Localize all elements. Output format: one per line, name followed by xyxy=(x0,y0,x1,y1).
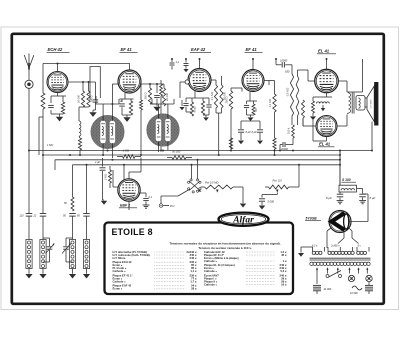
wire V4 cath xyxy=(249,92,251,102)
coil L3 xyxy=(26,240,32,269)
svg-text:2 µF: 2 µF xyxy=(94,161,101,164)
logo Alfar xyxy=(219,213,269,226)
svg-text:10000: 10000 xyxy=(280,59,288,63)
capacitor C14 bypass xyxy=(259,121,261,129)
svg-text:0,1 MΩ: 0,1 MΩ xyxy=(268,99,272,107)
title box xyxy=(105,223,294,295)
capacitor C8 avc xyxy=(185,59,187,63)
capacitor Ct3 xyxy=(69,213,76,215)
transformer T1 primary xyxy=(349,93,351,113)
wire tower2 drop xyxy=(42,155,44,213)
wire R1 down xyxy=(42,109,44,155)
transformer PT winding HT xyxy=(328,251,331,254)
svg-text:16 v.: 16 v. xyxy=(281,282,287,286)
tube V8 5Y3GB xyxy=(329,211,351,233)
svg-text:1,7 v.: 1,7 v. xyxy=(190,279,197,283)
wire R21 top xyxy=(297,70,299,76)
bus turns right xyxy=(339,151,341,186)
wire Ct1 down xyxy=(28,216,30,239)
wire det gnd xyxy=(203,114,209,116)
wire 6v net xyxy=(301,246,313,248)
lamp LP2 xyxy=(366,275,372,281)
svg-text:28 v.: 28 v. xyxy=(191,287,197,291)
arrow nfb xyxy=(321,108,325,111)
antenna coupling xyxy=(25,80,33,88)
resistor R17 xyxy=(229,138,232,149)
svg-text:5 000: 5 000 xyxy=(195,106,197,112)
wire V4 right xyxy=(264,80,275,82)
wire det join xyxy=(186,111,192,113)
svg-text:8 µF: 8 µF xyxy=(370,196,376,200)
capacitor C20 xyxy=(120,101,122,103)
wire V3 left xyxy=(180,81,185,83)
resistor R23 wavy xyxy=(292,125,295,138)
switch SW1 xyxy=(188,181,190,183)
wire sec to vc xyxy=(365,97,367,99)
capacitor C5 xyxy=(119,103,125,105)
wire V1 left drop xyxy=(42,64,44,94)
wire cath join xyxy=(50,110,52,114)
ground V4 cathode xyxy=(248,117,254,121)
svg-text:0,1 MΩ: 0,1 MΩ xyxy=(210,92,214,100)
capacitor C16 xyxy=(280,144,282,146)
wire MF2 top net xyxy=(152,103,174,105)
variable capacitor CV1 xyxy=(49,241,51,246)
svg-text:1,1 v.: 1,1 v. xyxy=(190,269,197,273)
wire V2 right xyxy=(141,83,164,85)
wire C3 gnd xyxy=(93,109,96,111)
speaker voice coil xyxy=(359,96,367,111)
wire speaker return xyxy=(371,122,373,151)
capacitor Ct2 xyxy=(40,213,47,215)
wire V5 grid xyxy=(308,80,315,82)
bus D xyxy=(73,164,341,166)
ground L6 xyxy=(83,274,90,279)
tube V6 EL41 xyxy=(316,116,337,137)
wire R29 gnd xyxy=(242,187,244,203)
wire CV1 link xyxy=(49,238,51,241)
wire V1 right xyxy=(68,81,96,83)
svg-text:CH 6800: CH 6800 xyxy=(371,99,373,108)
svg-text:Cathode »: Cathode » xyxy=(204,269,217,273)
wire choke in xyxy=(339,151,341,186)
ground L5 xyxy=(69,274,76,279)
svg-text:41 000: 41 000 xyxy=(324,288,332,291)
svg-text:45 v.: 45 v. xyxy=(281,253,287,257)
capacitor C13 bypass xyxy=(240,121,242,129)
wire caps top xyxy=(241,120,260,122)
capacitor C23 xyxy=(140,192,146,194)
ground C26 xyxy=(359,200,366,202)
wire V2 cath drop xyxy=(124,93,126,99)
svg-text:20 000: 20 000 xyxy=(77,94,81,103)
wire V6 cath xyxy=(326,137,328,142)
oscillator coil L2 xyxy=(78,107,80,121)
transformer PT winding 5v xyxy=(357,251,360,254)
coil L4 xyxy=(40,240,46,269)
svg-text:1 MC.: 1 MC. xyxy=(47,143,54,147)
capacitor C28 ladder xyxy=(365,284,373,286)
svg-text:EF 41: EF 41 xyxy=(246,47,258,52)
variable capacitor CV2 xyxy=(65,241,67,246)
ground L4 xyxy=(39,274,46,279)
ground L3 xyxy=(25,274,32,279)
wire V5 cath xyxy=(326,93,328,97)
wire L4 down xyxy=(42,269,44,274)
ground det xyxy=(203,117,209,121)
wire CV1 bottom xyxy=(49,255,51,262)
wire PT taps xyxy=(316,268,318,274)
wire C22 gnd xyxy=(102,177,104,200)
wire choke ends xyxy=(339,192,341,194)
resistor R1 xyxy=(41,93,45,109)
svg-text:300 Ω: 300 Ω xyxy=(144,92,148,99)
junction dots buses xyxy=(107,150,109,152)
wire Ct4 down xyxy=(86,216,88,239)
svg-text:5,3 v.: 5,3 v. xyxy=(280,269,287,273)
wire OT top feed xyxy=(362,59,364,92)
wire V2 comp gnd xyxy=(150,103,157,105)
capacitor C10 xyxy=(206,104,211,106)
wire Ct3 down xyxy=(72,216,74,239)
wire V3 right xyxy=(211,79,216,81)
ground C23 xyxy=(143,204,150,206)
resistor R19 xyxy=(273,138,276,149)
bus C left turn xyxy=(54,160,56,170)
tube V5 EL41 xyxy=(315,69,339,93)
resistor R27 xyxy=(71,197,74,211)
IF transformer MF2 xyxy=(147,114,179,146)
capacitor C12 xyxy=(244,104,249,106)
wire L3 down xyxy=(28,269,30,274)
capacitor C22 xyxy=(102,158,104,167)
svg-text:EF 41: EF 41 xyxy=(121,47,133,52)
wire L5 down xyxy=(72,269,74,274)
wire V6 grid xyxy=(303,125,316,127)
wire V2 cath gnd xyxy=(122,114,131,116)
ground C13 xyxy=(238,141,244,145)
wire MF2 leads xyxy=(158,104,160,114)
coil L5 xyxy=(69,240,75,269)
svg-text:S 100: S 100 xyxy=(342,178,351,182)
resistor R3 xyxy=(81,91,84,107)
tube V2 EF41 xyxy=(118,70,141,93)
wire MF1 leads xyxy=(102,104,104,116)
svg-text:100 k: 100 k xyxy=(287,127,291,134)
pickup PU xyxy=(159,204,163,208)
svg-text:2x350 v.: 2x350 v. xyxy=(330,245,340,248)
wire L6 down xyxy=(86,269,88,274)
resistor R7 xyxy=(148,88,151,104)
wire R13 down xyxy=(215,108,217,113)
wire MF1 top net xyxy=(96,103,119,105)
coil L6 xyxy=(83,240,89,269)
tube V7 EBF2 xyxy=(118,179,140,201)
wire V5 plate xyxy=(338,80,347,82)
resistor R13 xyxy=(214,85,217,108)
wire R30 up xyxy=(298,165,300,187)
wire avc loop xyxy=(90,67,100,101)
wire V3 top xyxy=(199,59,201,69)
wire R23 down xyxy=(292,138,294,145)
wire tower4 drop xyxy=(86,165,88,213)
arrow R30 wiper xyxy=(276,190,279,193)
switch SW2 xyxy=(326,275,329,278)
resistor R21 gridstop xyxy=(296,76,299,116)
svg-text:8 µF: 8 µF xyxy=(326,196,332,200)
svg-text:2 MΩ: 2 MΩ xyxy=(104,174,108,181)
resistor R12 xyxy=(201,101,204,115)
tube V3 EAF42 xyxy=(188,69,211,92)
wire phase xyxy=(291,116,293,125)
svg-text:0,1: 0,1 xyxy=(149,196,153,199)
resistor R6 xyxy=(129,101,132,115)
svg-text:20 000: 20 000 xyxy=(165,92,169,101)
wire CV2 bottom xyxy=(65,255,67,262)
coil nfb xyxy=(317,102,330,104)
wire antenna down xyxy=(28,88,30,213)
wire R3R4 bottom xyxy=(83,106,89,108)
wire SW1 pu xyxy=(160,196,162,204)
svg-text:5Y3GB: 5Y3GB xyxy=(306,217,318,221)
arrow R29 wiper xyxy=(216,190,219,193)
capacitor C26 8uF xyxy=(359,193,366,195)
svg-text:EAF 42: EAF 42 xyxy=(191,47,206,52)
resistor R14 xyxy=(220,85,223,108)
wire V4 cath gnd xyxy=(247,114,254,116)
ground C8 xyxy=(183,69,188,72)
tube V1 ECH42 xyxy=(47,72,68,93)
wire V1 top bus xyxy=(43,63,130,65)
wire V3 below xyxy=(194,91,196,98)
wire lamps xyxy=(316,274,318,285)
ground C14 xyxy=(257,141,263,145)
wire V1 cathode xyxy=(57,93,59,97)
wire V6 plate xyxy=(337,125,347,127)
capacitor C3 xyxy=(93,99,99,101)
svg-text:EL 41: EL 41 xyxy=(318,49,330,54)
svg-text:Pot 0,5 MΩ: Pot 0,5 MΩ xyxy=(205,181,219,185)
svg-text:10 000: 10 000 xyxy=(350,292,358,295)
svg-text:5 000: 5 000 xyxy=(268,200,275,204)
resistor R5 padder xyxy=(78,138,81,150)
resistor R22 xyxy=(302,100,305,118)
capacitor Ct1 xyxy=(26,213,33,215)
capacitor C7 grid xyxy=(171,59,173,62)
resistor R8 xyxy=(162,88,165,106)
wire CV2 link xyxy=(65,238,67,241)
svg-text:Alfar: Alfar xyxy=(232,215,254,225)
svg-text:0,5 MΩ: 0,5 MΩ xyxy=(286,88,290,96)
svg-text:ETOILE 8: ETOILE 8 xyxy=(112,227,153,237)
resistor R18 xyxy=(273,94,276,112)
ground V1 cathode xyxy=(56,117,63,122)
speaker cone xyxy=(367,86,374,122)
transformer T1 core xyxy=(351,93,353,114)
wire V7 bottom xyxy=(128,201,130,210)
capacitor C15 xyxy=(276,64,282,66)
wire V8 right lead xyxy=(349,228,353,232)
lamp LP1 xyxy=(348,275,354,281)
tube V4 EF41 xyxy=(242,70,264,92)
svg-text:6,3 v.: 6,3 v. xyxy=(312,245,318,248)
wire tower3 drop xyxy=(72,180,74,197)
bus A to speaker xyxy=(340,150,372,152)
border frame xyxy=(12,34,384,304)
svg-text:110: 110 xyxy=(20,215,25,218)
svg-text:22: 22 xyxy=(33,215,37,218)
resistor R10 wavy xyxy=(160,84,163,96)
bus C xyxy=(55,159,340,161)
ground C25 xyxy=(337,200,344,202)
bus D left turn xyxy=(72,165,74,180)
svg-text:8 µF: 8 µF xyxy=(246,130,252,134)
bus A xyxy=(29,150,340,152)
svg-text:5 v.: 5 v. xyxy=(358,245,362,248)
svg-text:Cathode »: Cathode » xyxy=(204,282,217,286)
resistor R15 xyxy=(252,104,255,115)
svg-text:Pot. 0,5: Pot. 0,5 xyxy=(273,179,283,183)
svg-text:H.T. filtrée: H.T. filtrée xyxy=(113,256,126,260)
wire V8 left lead xyxy=(327,228,332,232)
resistor R11 xyxy=(190,102,193,116)
ground V3 arrow xyxy=(181,100,183,106)
resistor R4 xyxy=(87,91,90,107)
wire V5 top xyxy=(326,59,328,69)
svg-text:P.U.: P.U. xyxy=(170,204,175,208)
svg-text:Cathode »: Cathode » xyxy=(204,259,217,263)
wire V2 grid xyxy=(112,83,118,85)
resistor R9 xyxy=(140,100,143,110)
resistor R20 xyxy=(291,65,293,74)
ground C24 xyxy=(259,206,265,210)
transformer PT primary xyxy=(310,262,313,265)
capacitor C24 xyxy=(259,198,265,200)
capacitor C27 ladder xyxy=(313,284,321,286)
wire V4 top xyxy=(252,59,254,70)
sine symbol xyxy=(352,286,362,290)
svg-text:EL 41: EL 41 xyxy=(319,142,331,147)
IF transformer MF1 xyxy=(91,115,124,148)
wire V8 cath out xyxy=(349,221,368,223)
ground R24 xyxy=(310,116,316,120)
resistor R24 cath xyxy=(313,96,320,98)
capacitor C6 xyxy=(154,94,160,96)
ground V2 cathode xyxy=(123,117,130,122)
svg-text:300 Ω: 300 Ω xyxy=(225,96,229,103)
capacitor C9 xyxy=(183,102,188,104)
svg-text:Cathode »: Cathode » xyxy=(113,269,126,273)
capacitor C2 xyxy=(48,104,54,106)
resistor R28 xyxy=(109,170,112,183)
ground C22 xyxy=(101,201,107,205)
wire Ct2 down xyxy=(42,216,44,239)
svg-text:1 µ: 1 µ xyxy=(176,60,180,64)
wire V7 top xyxy=(128,172,130,179)
transformer PT core xyxy=(310,257,371,259)
grid cap V3 xyxy=(185,80,189,84)
resistor R16 xyxy=(230,88,232,91)
speaker magnet bar xyxy=(374,82,378,126)
svg-text:1 v.: 1 v. xyxy=(283,259,288,263)
svg-text:ECH 42: ECH 42 xyxy=(48,47,63,52)
svg-text:630: 630 xyxy=(285,70,290,74)
svg-text:Tension du secteur ramenée à 1: Tension du secteur ramenée à 110 v. xyxy=(198,246,252,250)
ground C3 xyxy=(89,112,96,117)
wire x141 xyxy=(140,84,142,100)
ground arrow PT xyxy=(300,247,302,253)
capacitor Ct4 xyxy=(83,213,90,215)
resistor R2 xyxy=(61,102,64,114)
transformer PT winding 6v xyxy=(312,251,315,254)
bus B xyxy=(43,154,340,156)
wire PT hookups xyxy=(343,233,345,238)
antenna xyxy=(24,55,29,68)
wire V7 left xyxy=(113,186,118,188)
svg-text:Cathode »: Cathode » xyxy=(113,279,126,283)
svg-text:8 µF: 8 µF xyxy=(252,130,258,134)
wire x39 xyxy=(38,117,40,155)
transformer T1 secondary xyxy=(356,96,365,111)
svg-text:240 v.: 240 v. xyxy=(190,256,198,260)
wire R18 down xyxy=(274,112,276,138)
capacitor C25 8uF xyxy=(337,193,344,195)
ground V2 screen xyxy=(153,107,160,112)
